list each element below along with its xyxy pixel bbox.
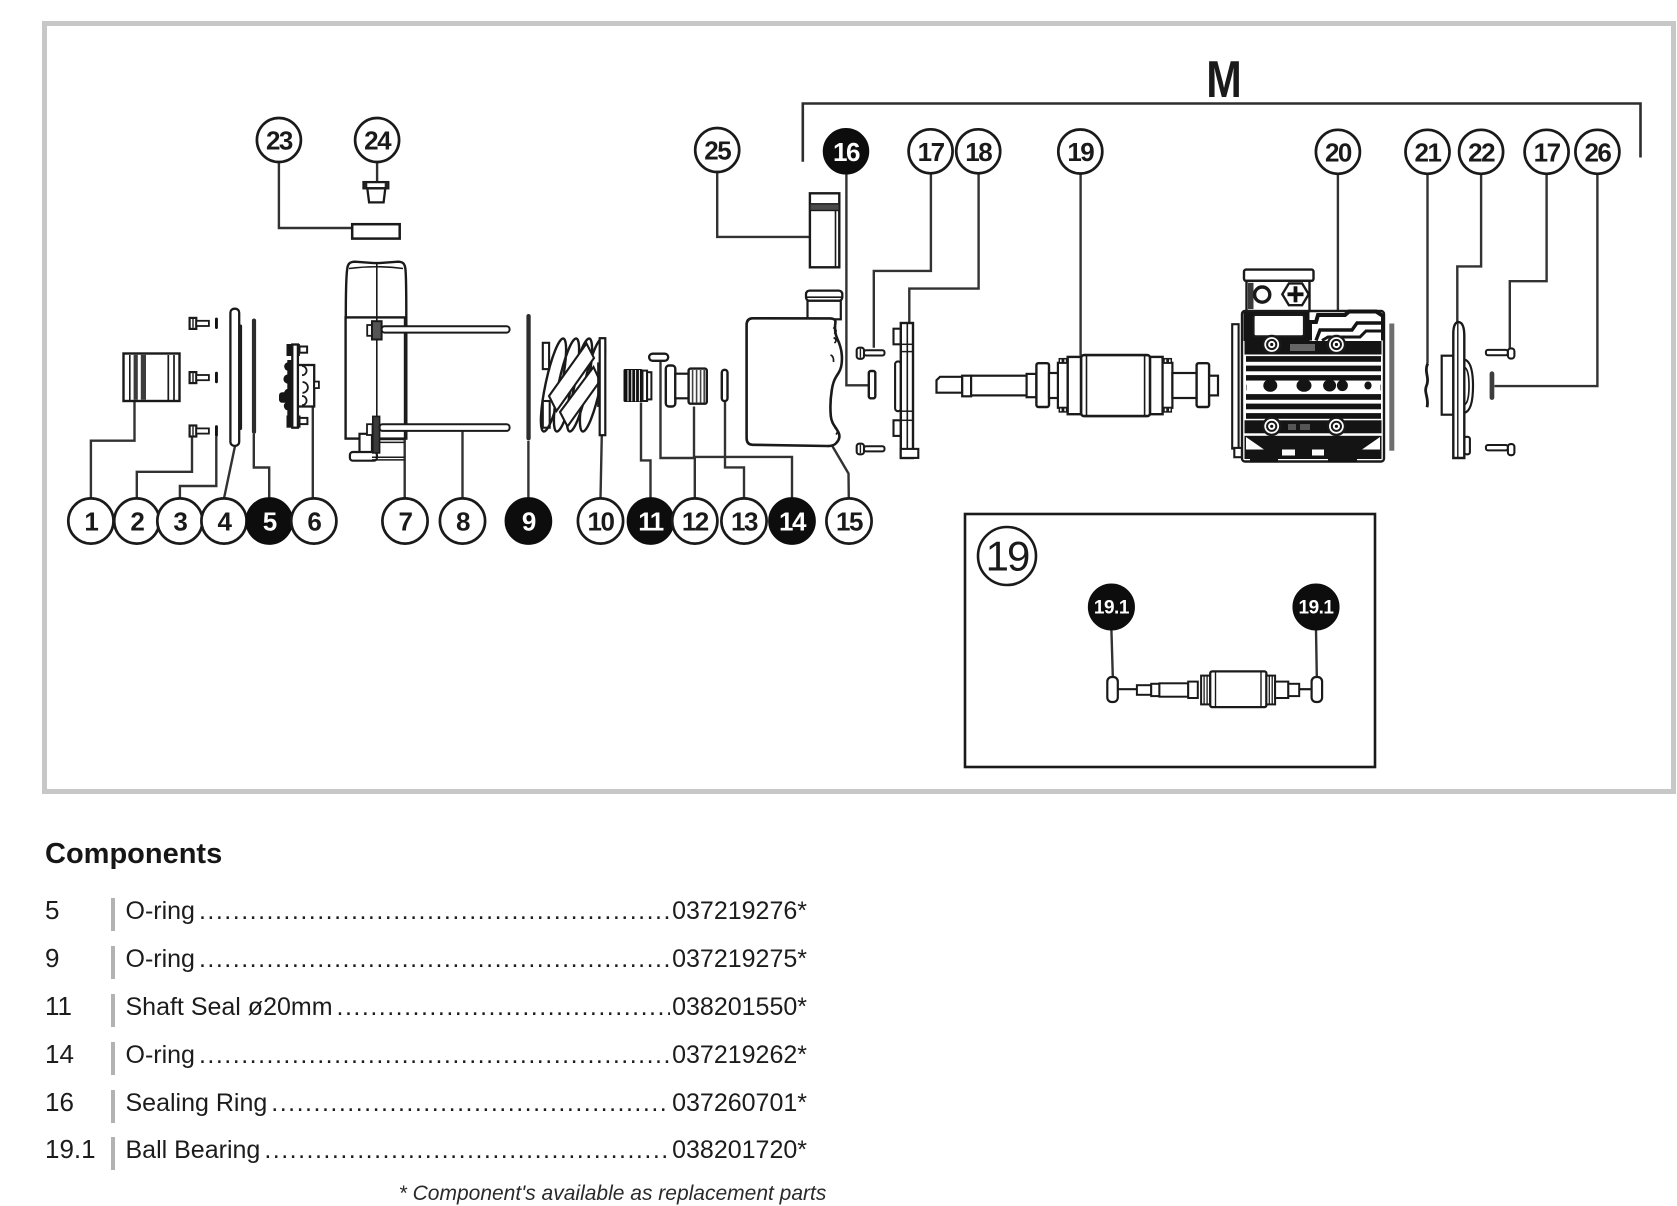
callout circle 17 top-right (1525, 130, 1569, 174)
leader line 13 (725, 401, 744, 498)
row part 14 (45, 1039, 807, 1087)
callout circle 19.1 right (black) (1294, 585, 1339, 630)
svg-text:2: 2 (130, 507, 144, 537)
components heading (45, 838, 222, 871)
svg-text:9: 9 (522, 507, 536, 537)
part 7 lantern housing (346, 262, 407, 461)
inset box detail 19 (965, 514, 1375, 767)
motor terminal box face (1247, 281, 1310, 311)
motor bolt lower-right (1328, 418, 1345, 435)
part 24 plug (364, 182, 389, 202)
motor bolt upper-right (1328, 336, 1345, 353)
callout circle 16 (black) (824, 129, 868, 173)
row part 16 (45, 1087, 807, 1135)
row part 11 (45, 991, 807, 1039)
bolt 8 top (367, 321, 509, 339)
inset shaft tip left (1137, 685, 1151, 695)
callout circle 4 (201, 498, 246, 543)
motor stator edge bar left (1232, 324, 1238, 448)
svg-text:10: 10 (588, 507, 615, 537)
inset shaft link right (1299, 688, 1311, 690)
leader line 20 (1337, 174, 1339, 313)
callout circle 12 (672, 498, 717, 543)
svg-text:18: 18 (965, 137, 992, 167)
washer 3 top (215, 318, 218, 329)
callout circle 19.1 left (black) (1089, 585, 1134, 630)
part 6 valve bracket (279, 344, 319, 428)
leader line 7 (404, 439, 406, 499)
terminal box hex plug (1282, 283, 1308, 305)
part 10 impeller spring (536, 337, 610, 435)
part 12 pin with flat head (649, 354, 668, 361)
motor bottom block (1245, 436, 1382, 459)
leader line 25 (717, 172, 810, 237)
svg-text:21: 21 (1415, 137, 1442, 167)
part 20 motor (1232, 270, 1394, 463)
inset rotor drawing (1107, 671, 1322, 707)
inset rib left (1201, 676, 1210, 705)
callout circle 11 (black) (628, 498, 673, 543)
part 26 parallel pin (1490, 371, 1495, 400)
washer 3 bottom (215, 425, 218, 436)
leader line 17b (1510, 174, 1547, 348)
callout circle 19 inset (978, 527, 1036, 585)
inset shaft right (1275, 682, 1288, 698)
svg-text:3: 3 (173, 507, 187, 537)
callout circle 2 (114, 498, 159, 543)
leader line 19.1 left (1111, 630, 1112, 677)
svg-text:11: 11 (638, 507, 664, 537)
svg-text:14: 14 (779, 507, 807, 537)
leader line 10 (601, 435, 602, 499)
callout circle 17 top-left (909, 129, 953, 173)
screw 17 right upper (1486, 348, 1515, 358)
callout circle 24 (355, 118, 399, 162)
leader line 3 (180, 437, 216, 499)
svg-text:4: 4 (218, 507, 233, 537)
callout circle 20 (1316, 130, 1360, 174)
svg-text:7: 7 (399, 507, 413, 537)
screw 17 left lower (857, 444, 885, 455)
svg-text:19.1: 19.1 (1299, 598, 1335, 619)
leader line 24 (376, 162, 378, 182)
callout circle 13 (721, 498, 766, 543)
motor label plate (1254, 315, 1305, 336)
svg-text:12: 12 (682, 507, 709, 537)
motor end ring gray bar (1389, 324, 1394, 451)
callout circle 6 (291, 498, 336, 543)
callout circle 25 (695, 128, 739, 172)
svg-text:13: 13 (731, 507, 758, 537)
svg-text:17: 17 (1534, 137, 1561, 167)
leader line 17a (874, 174, 931, 348)
leader line 4 (224, 446, 235, 498)
row part 19.1 (45, 1134, 807, 1182)
part 23 gasket strip (352, 224, 400, 238)
motor label backing (1244, 312, 1310, 342)
leader line 2 (137, 436, 192, 498)
part 1 motor cap cylinder (124, 354, 180, 402)
svg-text:19: 19 (986, 533, 1029, 580)
leader line 12 (661, 362, 695, 498)
svg-text:25: 25 (704, 136, 731, 166)
screw 17 right lower (1486, 444, 1515, 455)
part 13 parallel pin (722, 370, 728, 401)
screw 2 top (190, 318, 209, 329)
part 19 rotor shaft assembly (937, 355, 1219, 416)
part 21 retaining ring edge view (1426, 364, 1428, 408)
svg-text:20: 20 (1325, 137, 1352, 167)
svg-text:5: 5 (263, 507, 277, 537)
motor bolt upper-left (1263, 336, 1280, 353)
leader line 5 (254, 434, 269, 498)
part 15 pump housing (747, 291, 843, 446)
part 25 port sleeve (810, 193, 839, 267)
callout circle 23 (257, 118, 301, 162)
frame: outer diagram border (45, 24, 1674, 792)
callout circle 19 top (1058, 130, 1102, 174)
motor upper bolt strip (1245, 341, 1382, 355)
leader line 8 (461, 431, 463, 498)
part 4 flange plate (230, 309, 242, 446)
motor fins (1246, 356, 1381, 419)
label M bracket (803, 104, 1641, 162)
svg-text:26: 26 (1584, 137, 1611, 167)
motor casting dots (1247, 381, 1381, 391)
svg-text:19: 19 (1067, 137, 1094, 167)
leader line 21 (1426, 174, 1428, 364)
leader line 11 (641, 403, 651, 499)
svg-text:15: 15 (836, 507, 863, 537)
leader line 26 (1495, 174, 1598, 386)
part 18 seal housing bracket (894, 323, 919, 458)
part 16 sealing ring (869, 371, 876, 398)
callout circle 7 (382, 498, 427, 543)
row part 5 (45, 895, 807, 943)
callout circle 1 (68, 498, 113, 543)
inset rotor body (1210, 671, 1266, 707)
callout circle 26 (1575, 130, 1619, 174)
terminal box gland circle (1255, 287, 1270, 302)
callout circle 3 (157, 498, 202, 543)
motor bolt lower-left (1263, 418, 1280, 435)
motor top cowl steps (1310, 312, 1383, 341)
leader line 23 (279, 162, 352, 228)
bolt 8 bottom (367, 416, 510, 453)
svg-text:19.1: 19.1 (1094, 598, 1130, 619)
callout circle 10 (578, 498, 623, 543)
svg-text:17: 17 (918, 137, 945, 167)
svg-text:23: 23 (266, 126, 293, 156)
leader line 14 (694, 407, 792, 499)
svg-text:1: 1 (84, 507, 98, 537)
callout circle 14 (black) (769, 498, 814, 543)
leader line 9 (527, 441, 529, 498)
svg-text:8: 8 (456, 507, 470, 537)
leader line 6 (312, 407, 314, 499)
screw 17 left upper (857, 348, 885, 359)
part 9 o-ring edge view (526, 314, 530, 441)
footnote (45, 1182, 1180, 1206)
callout circle 5 (black) (247, 498, 292, 543)
motor terminal box lid (1244, 270, 1314, 281)
leader line 19 (1079, 174, 1081, 356)
leader line 1 (91, 401, 135, 498)
leader line 22 (1457, 174, 1481, 322)
svg-text:M: M (1206, 51, 1242, 109)
leader line 15 (832, 446, 849, 499)
screw 2 bottom (190, 426, 209, 437)
motor feet (1250, 457, 1278, 463)
screw 2 middle (190, 372, 209, 383)
callout circle 9 (black) (506, 498, 551, 543)
motor gray mid dashes (1290, 344, 1315, 351)
washer 3 middle (215, 372, 218, 383)
inset rib right (1266, 676, 1275, 705)
row part 9 (45, 943, 807, 991)
part 5 o-ring edge view (252, 319, 256, 435)
leader line 18 (909, 174, 978, 324)
svg-text:16: 16 (833, 137, 860, 167)
callout circle 15 (826, 498, 871, 543)
callout circle 21 (1406, 130, 1450, 174)
svg-text:24: 24 (364, 126, 392, 156)
motor lower bolt strip (1245, 420, 1382, 433)
leader line 19.1 right (1315, 630, 1318, 677)
leader line 16 (846, 174, 868, 386)
part 14 seal coupling (666, 366, 707, 407)
inset bearing 19.1 right (1312, 677, 1323, 702)
callout circle 8 (440, 498, 485, 543)
callout circle 22 (1459, 130, 1503, 174)
callout circle 18 (956, 129, 1000, 173)
motor body base (1242, 311, 1384, 462)
svg-text:6: 6 (307, 507, 321, 537)
inset shaft link left (1118, 688, 1137, 690)
svg-text:22: 22 (1468, 137, 1495, 167)
part 11 shaft seal (624, 369, 652, 402)
part 22 bearing end shield (1442, 322, 1473, 458)
inset bearing 19.1 left (1107, 677, 1118, 702)
